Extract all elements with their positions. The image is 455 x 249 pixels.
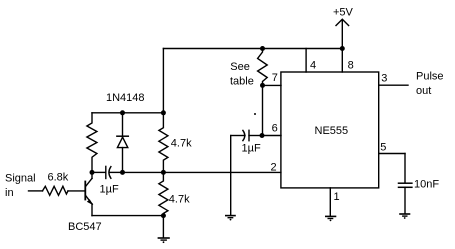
junction dot emitter row / ground [161,213,166,218]
junction dot collector-row / R1 [161,110,166,115]
svg-text:4.7k: 4.7k [171,138,192,150]
op IC U1 NE555 box [281,72,379,188]
svg-text:7: 7 [272,72,278,84]
resistor R1 4.7k [159,113,168,173]
svg-text:8: 8 [348,59,354,71]
svg-text:out: out [416,85,431,97]
wire C3 to ground [404,187,406,213]
resistor R2 4.7k [159,172,168,215]
junction dot pin 7 / see-table bottom [260,83,265,88]
wire pin 1 [329,188,331,216]
resistor R4 unlabeled [87,113,97,173]
resistor R3 6.8k [43,186,69,195]
wire R3 to base [68,190,85,192]
transistor Q1 BC547 [85,172,93,205]
svg-text:in: in [5,187,14,199]
svg-text:1: 1 [334,191,340,203]
wire pin 4 [305,49,307,73]
wire C1 to diode node [110,171,123,173]
wire node pin7 to pin6 column [262,85,264,135]
wire pin 8 [341,49,343,73]
svg-text:NE555: NE555 [315,125,349,137]
wire pin 5 [379,154,405,183]
junction dot R1/R2/pin2 row [161,170,166,175]
stray dot artifact [254,113,256,115]
wire collector node to C1 [92,171,106,173]
svg-text:2: 2 [271,162,277,174]
svg-text:See: See [230,61,250,73]
ground below R2 [158,238,169,243]
junction dot rail / pin 8 / +5V [340,46,345,51]
svg-text:Pulse: Pulse [416,70,444,82]
capacitor C3 10nF [399,183,412,187]
svg-text:6: 6 [272,123,278,135]
capacitor C2 1uF [231,130,262,140]
junction dot rail / see-table resistor [260,46,265,51]
svg-text:3: 3 [381,72,387,84]
wire C2 to ground [230,136,232,215]
svg-text:table: table [230,75,254,87]
wire +5V top rail [163,48,342,50]
svg-text:5: 5 [380,142,386,154]
svg-text:BC547: BC547 [68,221,102,233]
wire trigger row to pin 2 [123,171,281,173]
ground below pin 1 [326,216,336,221]
wire upper node row [92,112,163,114]
svg-text:4: 4 [310,59,316,71]
wire rail down to R1 column [162,49,164,113]
svg-text:+5V: +5V [333,7,354,19]
svg-text:1µF: 1µF [100,184,119,196]
svg-text:4.7k: 4.7k [169,194,190,206]
capacitor C1 1uF [106,166,111,178]
junction dot diode bottom [120,170,125,175]
svg-text:1N4148: 1N4148 [106,92,145,104]
svg-text:6.8k: 6.8k [48,171,69,183]
+5V power symbol [336,19,349,48]
junction dot collector node [90,170,95,175]
wire pin 6 [262,135,281,137]
junction dot pin 6 [260,133,265,138]
wire R2 to ground [162,216,164,237]
svg-text:Signal: Signal [5,173,36,185]
junction dot diode top [120,110,125,115]
wire emitter to ground row [92,204,163,216]
wire pin 3 [379,84,408,86]
wire pin 7 [263,84,282,86]
svg-text:1µF: 1µF [242,143,261,155]
resistor R see-table [258,49,268,86]
ground below C3 [400,214,410,219]
diode D1 1N4148 [117,113,128,173]
ground below C2 [226,216,235,221]
wire signal input [29,190,43,192]
svg-text:10nF: 10nF [414,178,439,190]
